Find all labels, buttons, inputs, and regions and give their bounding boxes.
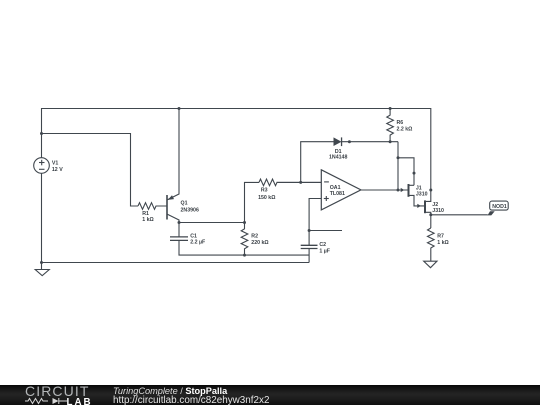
svg-text:R2: R2 (251, 234, 258, 240)
svg-text:TL081: TL081 (330, 191, 345, 197)
svg-text:150 kΩ: 150 kΩ (258, 195, 275, 201)
svg-text:2.2 kΩ: 2.2 kΩ (397, 127, 413, 133)
svg-text:1 kΩ: 1 kΩ (142, 217, 154, 223)
svg-text:1N4148: 1N4148 (329, 155, 347, 161)
svg-text:V1: V1 (52, 161, 59, 167)
svg-text:Q1: Q1 (181, 201, 188, 207)
svg-text:1 µF: 1 µF (319, 248, 330, 254)
svg-text:J310: J310 (432, 208, 444, 214)
svg-text:220 kΩ: 220 kΩ (251, 240, 268, 246)
svg-text:2.2 µF: 2.2 µF (190, 240, 206, 246)
svg-text:J310: J310 (416, 192, 428, 198)
svg-text:R7: R7 (437, 234, 444, 240)
svg-text:R3: R3 (261, 188, 268, 194)
svg-text:2N3906: 2N3906 (181, 208, 199, 214)
svg-text:LAB: LAB (67, 396, 93, 405)
svg-text:1 kΩ: 1 kΩ (437, 240, 449, 246)
svg-text:NOD1: NOD1 (492, 204, 507, 210)
svg-text:C2: C2 (319, 242, 326, 248)
svg-text:12 V: 12 V (52, 167, 63, 173)
svg-text:R6: R6 (397, 120, 404, 126)
